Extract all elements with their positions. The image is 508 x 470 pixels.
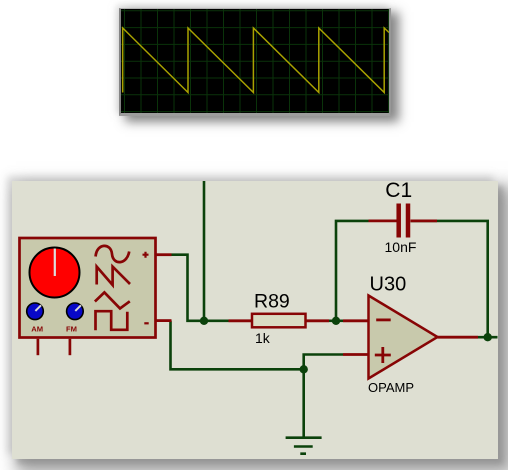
function generator body — [20, 238, 156, 338]
FG plus terminal mark — [143, 252, 149, 258]
resistor R89 body — [252, 314, 306, 328]
op-amp minus input mark — [376, 318, 391, 321]
svg-text:10nF: 10nF — [385, 239, 417, 255]
capacitor C1 leads — [369, 219, 438, 222]
wire: ground node down to ground symbol — [302, 369, 305, 436]
op-amp plus input mark — [375, 347, 391, 363]
FG triangle waveform glyph — [95, 292, 130, 308]
svg-text:1k: 1k — [255, 330, 271, 346]
FG AM knob pointer — [35, 305, 41, 311]
FG red knob — [30, 248, 80, 298]
FG minus terminal mark — [144, 322, 148, 324]
svg-text:FM: FM — [66, 325, 77, 334]
op-amp U30 body — [369, 296, 438, 379]
op-amp minus input pin — [343, 319, 369, 322]
scope grid — [121, 9, 389, 113]
op-amp output pin — [438, 336, 479, 339]
svg-text:AM: AM — [31, 325, 43, 334]
FG square waveform glyph — [96, 311, 128, 330]
wire: feedback from minus node up through C1 to output — [336, 221, 488, 337]
op-amp plus input pin — [343, 353, 369, 356]
wire: op-amp output to right edge — [478, 336, 498, 339]
FG red knob pointer — [54, 249, 56, 277]
wire: FG - output down and right to ground node — [171, 321, 304, 370]
FG AM knob — [27, 303, 44, 320]
svg-text:U30: U30 — [370, 274, 407, 296]
wire: ground node up to op-amp plus input — [304, 355, 343, 370]
FG FM knob pointer — [75, 305, 81, 311]
resistor R89 leads — [229, 319, 330, 322]
junction node at output net — [484, 333, 492, 341]
FG - pin stub — [156, 319, 172, 322]
ground symbol — [286, 438, 322, 454]
FG sine waveform glyph — [96, 246, 130, 262]
FG right leg — [69, 339, 72, 355]
wire: inverting node to resistor — [204, 319, 229, 322]
svg-text:R89: R89 — [254, 290, 290, 312]
junction node at inverting input net — [200, 317, 208, 325]
svg-text:OPAMP: OPAMP — [368, 380, 414, 395]
svg-text:C1: C1 — [385, 181, 412, 202]
FG left leg — [37, 339, 40, 355]
FG sawtooth waveform glyph — [97, 267, 130, 285]
FG FM knob — [67, 303, 84, 320]
wire: resistor to op-amp minus node — [329, 319, 343, 322]
wire: top vertical net into inverting node — [203, 181, 206, 321]
sawtooth waveform trace — [123, 28, 389, 93]
FG + pin stub — [156, 253, 172, 256]
schematic panel — [12, 181, 498, 459]
capacitor C1 plates — [399, 204, 408, 238]
junction node at ground net — [300, 365, 308, 373]
oscilloscope screenshot — [119, 8, 391, 116]
wire: FG + output to inverting node — [172, 255, 205, 321]
junction node at resistor/op-amp minus — [332, 317, 340, 325]
